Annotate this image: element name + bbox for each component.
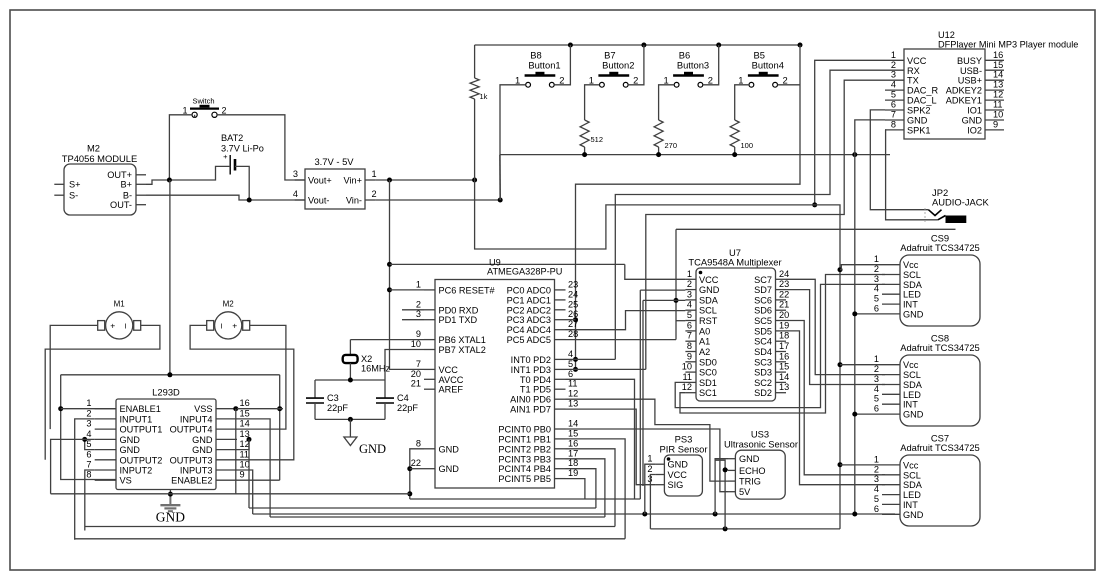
junction bus / R100 [732,152,737,157]
pin 11 T1 PD5 of U9 [555,388,566,390]
pin 22 SC6 of U7 [776,299,787,301]
svg-text:BUSY: BUSY [957,56,982,66]
svg-text:7: 7 [891,110,896,120]
wire bus D INPUT2 to PB2 [85,526,615,528]
IC U9 ATMEGA328P-PU [435,280,555,489]
svg-text:2: 2 [647,464,652,474]
svg-text:Adafruit TCS34725: Adafruit TCS34725 [900,342,980,353]
svg-text:GND: GND [739,454,760,464]
svg-text:PCINT3 PB3: PCINT3 PB3 [498,454,551,464]
svg-text:16: 16 [240,398,250,408]
svg-text:TRIG: TRIG [739,477,761,487]
wire Vin- net [375,199,500,201]
svg-text:19: 19 [568,468,578,478]
pin 11 SD1 of U7 [685,381,696,383]
svg-text:SIG: SIG [668,480,684,490]
svg-text:RX: RX [907,66,920,76]
svg-text:VS: VS [120,476,132,486]
svg-text:L293D: L293D [152,387,180,398]
pin 2 Vin- [365,199,375,201]
svg-text:1: 1 [663,75,668,86]
svg-text:OUT+: OUT+ [107,170,132,180]
svg-text:21: 21 [411,379,421,389]
pin 2 RX of U12 [885,69,904,71]
switch SW1 [182,97,226,118]
pin 4 LED of CS9 [882,293,900,295]
svg-text:16: 16 [568,438,578,448]
wire U7 SC5 to CS7 SCL [786,321,885,475]
battery BAT2 3.7V Li-Po [221,133,264,175]
wire B+ to battery plus [146,166,230,184]
wire 5V bottom bus [650,528,840,530]
junction rail end [798,43,803,48]
junction gnd bus / gnd symbol [168,492,173,497]
pin 3 OUTPUT1 of L293D [95,428,116,430]
junction bus / R512 [582,152,587,157]
pin 15 PCINT1 PB1 of U9 [555,438,566,440]
svg-text:14: 14 [779,372,789,382]
svg-text:VCC: VCC [439,365,459,375]
svg-text:4: 4 [891,80,896,90]
svg-text:SD7: SD7 [754,285,772,295]
junction bottom gnd / main gnd vertical [852,512,857,517]
svg-text:Vcc: Vcc [903,360,919,370]
wire ECHO jog to gnd column [715,460,725,470]
wire AIN1 PD7 to PS3 SIG [566,409,656,485]
svg-text:SD4: SD4 [754,347,772,357]
svg-text:3: 3 [874,374,879,384]
svg-text:GND: GND [907,116,928,126]
svg-text:OUTPUT1: OUTPUT1 [120,425,163,435]
wire VSS [237,408,283,410]
wire INT1 PD3 [566,368,646,370]
wire CS9 GND to gnd vertical [855,313,882,315]
svg-text:3: 3 [891,70,896,80]
svg-text:INPUT1: INPUT1 [120,414,153,424]
svg-text:GND: GND [962,116,983,126]
junction bus / R270 [656,152,661,157]
wire PCINT0 PB0 to US3 5V [566,429,729,492]
junction GND4 GND5 [82,437,87,442]
button B7 Button2 [589,50,639,88]
svg-text:6: 6 [687,320,692,330]
svg-text:1k: 1k [480,92,488,101]
svg-text:IO2: IO2 [967,125,982,135]
svg-text:SC3: SC3 [754,357,772,367]
wire rail right to VSS and ENABLE2 [279,375,281,480]
wire sda column [675,229,677,339]
svg-text:DAC_L: DAC_L [907,96,937,106]
wire U7 SCL to PC4 [566,311,686,330]
wire INPUT4 up [237,419,270,517]
svg-text:LED: LED [903,390,921,400]
svg-text:GND: GND [903,309,924,319]
svg-text:AVCC: AVCC [439,375,464,385]
svg-text:15: 15 [568,428,578,438]
svg-text:SCL: SCL [903,470,921,480]
wire CS8 Vcc to 5V [840,364,882,366]
svg-text:B+: B+ [121,180,133,190]
svg-text:PCINT0 PB0: PCINT0 PB0 [498,425,551,435]
pin 27 PC4 ADC4 of U9 [555,329,566,331]
sensor CS9 Adafruit TCS34725 [900,255,980,326]
svg-text:11: 11 [993,100,1003,110]
svg-text:8: 8 [891,119,896,129]
svg-text:8: 8 [687,341,692,351]
svg-text:270: 270 [665,141,678,150]
svg-text:2: 2 [874,364,879,374]
svg-text:ADKEY1: ADKEY1 [946,96,982,106]
svg-text:9: 9 [993,119,998,129]
pin 3 TX of U12 [885,79,904,81]
svg-text:14: 14 [993,70,1003,80]
svg-text:GND: GND [699,285,720,295]
wire B7 pin2 up to rail [628,45,644,85]
svg-text:4: 4 [86,429,91,439]
svg-text:PCINT4 PB4: PCINT4 PB4 [498,464,551,474]
svg-text:16: 16 [779,351,789,361]
svg-text:USB-: USB- [960,66,982,76]
junction VSS / gnd-bus drop [233,406,238,411]
svg-text:GND: GND [903,510,924,520]
svg-text:2: 2 [891,60,896,70]
wire B6 pin1 to R270 [659,85,675,120]
pin 1 Vcc of CS8 [882,364,900,366]
svg-text:1: 1 [647,454,652,464]
svg-text:DFPlayer Mini MP3 Player modul: DFPlayer Mini MP3 Player module [938,40,1078,50]
svg-text:VCC: VCC [699,275,719,285]
svg-text:11: 11 [240,449,250,459]
svg-text:PC6 RESET#: PC6 RESET# [439,285,496,295]
svg-text:AREF: AREF [439,385,464,395]
ground symbol (triangle) for crystal caps [344,437,357,446]
svg-text:PIR Sensor: PIR Sensor [660,444,708,455]
junction VCC drop / RESET wire [387,287,392,292]
wire CS9 Vcc to 5V [840,265,882,270]
svg-text:+: + [110,320,115,330]
wire L293D top rail [61,374,280,376]
svg-text:SCL: SCL [903,270,921,280]
svg-text:1: 1 [891,50,896,60]
junction Vin+ / 1k resistor [472,178,477,183]
svg-text:6: 6 [874,404,879,414]
pin 7 A1 of U7 [685,340,696,342]
svg-text:26: 26 [568,309,578,319]
svg-text:OUTPUT2: OUTPUT2 [120,455,163,465]
pin 25 PC2 ADC2 of U9 [555,309,566,311]
svg-text:SD2: SD2 [754,388,772,398]
svg-text:S+: S+ [69,180,81,190]
pin 16 VSS of L293D [216,408,237,410]
IC U7 TCA9548A Multiplexer [696,268,776,401]
svg-text:PC4 ADC4: PC4 ADC4 [507,325,551,335]
svg-text:19: 19 [779,320,789,330]
svg-text:C4: C4 [397,393,409,403]
wire left gnd bus [51,493,410,495]
pin 7 INPUT2 of L293D [95,469,116,471]
svg-text:INT0 PD2: INT0 PD2 [511,355,551,365]
svg-text:INPUT2: INPUT2 [120,466,153,476]
svg-text:23: 23 [779,279,789,289]
svg-text:4: 4 [568,349,573,359]
svg-text:X2: X2 [361,354,372,364]
svg-text:SD0: SD0 [699,357,717,367]
wire switch pin1 lead [194,115,196,118]
svg-text:25: 25 [568,299,578,309]
wire PS3 VCC down [650,475,655,529]
wire rail to 1k resistor [474,45,476,78]
svg-text:LED: LED [903,290,921,300]
svg-text:I: I [221,321,223,330]
motor M2 [207,299,250,339]
wire bus C PB3 to INPUT4 [270,516,605,518]
wire GND12 jog up [237,439,249,449]
pin 6 A0 of U7 [685,330,696,332]
svg-text:+: + [232,320,237,330]
pin 4 GND of L293D [95,438,116,440]
junction fan / PC3 [573,317,578,322]
wire to gnd triangle [349,419,351,437]
svg-text:Ultrasonic Sensor: Ultrasonic Sensor [724,439,798,450]
pin B- of M2 [136,194,146,196]
svg-text:SC6: SC6 [754,295,772,305]
svg-text:5: 5 [874,294,879,304]
wire CS8 GND to gnd vertical [855,413,882,415]
pin 20 AVCC of U9 [424,378,435,380]
svg-text:LED: LED [903,490,921,500]
svg-text:10: 10 [411,339,421,349]
svg-text:M1: M1 [114,299,126,308]
svg-text:17: 17 [779,341,789,351]
pin 4 INT0 PD2 of U9 [555,358,566,360]
pin B+ of M2 [136,183,146,185]
svg-text:2: 2 [782,75,787,86]
wire long dead-end line [676,228,956,230]
pin 5V of US3 [728,491,735,493]
svg-text:SD1: SD1 [699,378,717,388]
svg-text:SC5: SC5 [754,316,772,326]
svg-text:15: 15 [993,60,1003,70]
svg-text:24: 24 [779,269,789,279]
svg-text:4: 4 [874,384,879,394]
wire B5 pin2 to rail drop [778,84,801,86]
svg-text:6: 6 [874,504,879,514]
pin 8 SPK1 of U12 [885,129,904,131]
wire U12 RX to INT0 PD2 [615,70,885,359]
svg-text:SD5: SD5 [754,326,772,336]
svg-text:Button3: Button3 [677,60,709,71]
svg-text:Button2: Button2 [602,60,634,71]
pin 3 Vout+ [295,179,305,181]
motor M1 [98,299,141,339]
pin 2 GND of U7 [685,289,696,291]
svg-text:B-: B- [123,191,132,201]
wire Vin+ net [375,179,474,181]
wire R100 to gnd bus [734,147,736,155]
pin1 marker of U7 [699,271,703,275]
svg-text:Button1: Button1 [528,60,560,71]
svg-text:12: 12 [993,90,1003,100]
pin 3 SDA of CS8 [882,384,900,386]
wire U12 TX to INT1 PD3 [646,80,885,369]
svg-text:8: 8 [86,470,91,480]
svg-text:INT: INT [903,300,918,310]
svg-text:6: 6 [891,100,896,110]
svg-text:INT: INT [903,400,918,410]
pin 17 SD4 of U7 [776,351,787,353]
pin 4 DAC_R of U12 [885,89,904,91]
wire U7 GND drop [639,290,641,499]
wire B8 pin2 up to rail [554,45,570,85]
svg-text:16MHz: 16MHz [361,364,391,374]
junction Vin+ / VCC drop [387,178,392,183]
pin S+ of M2 [54,183,64,185]
svg-text:9: 9 [416,329,421,339]
junction fan / INT1 [573,367,578,372]
svg-text:9: 9 [687,351,692,361]
wire GND5 jog up [85,439,95,449]
pin 26 PC3 ADC3 of U9 [555,319,566,321]
svg-text:SC0: SC0 [699,368,717,378]
pin 10 PB7 XTAL2 of U9 [424,349,435,351]
wire U7 VCC feed [390,263,625,265]
svg-text:AIN1 PD7: AIN1 PD7 [510,405,551,415]
svg-text:GND: GND [192,435,213,445]
svg-text:PCINT5 PB5: PCINT5 PB5 [498,474,551,484]
pin 2 INPUT1 of L293D [95,418,116,420]
wire PD1 TXD stub [402,319,424,321]
svg-text:ADKEY2: ADKEY2 [946,86,982,96]
wire RESET to VCC net [390,289,425,291]
pin 2 SCL of CS9 [882,274,900,276]
wire 5V to U9 VCC pin7 [390,180,425,369]
IC U12 DFPlayer Mini MP3 Player module [904,49,985,139]
pin 13 ADKEY2 of U12 [985,89,1004,91]
wire PCINT3 PB3 down [566,459,605,517]
pin 2 VCC of PS3 [656,474,665,476]
junction sda column / U7 SDA [674,298,679,303]
wire U7 VCC up to 5V wire [625,264,686,279]
wire 1k to Vin+ junction [474,99,476,180]
pin 6 T0 PD4 of U9 [555,378,566,380]
pin 28 PC5 ADC5 of U9 [555,339,566,341]
svg-text:1: 1 [589,75,594,86]
svg-text:SC1: SC1 [699,388,717,398]
svg-text:GND: GND [439,444,460,454]
wire ENABLE2 to rail column [237,479,280,481]
connector JP2 AUDIO-JACK [925,187,990,224]
wire U7 SC1 to CS9 SCL [680,275,885,414]
pin GND of US3 [728,458,735,460]
wire M2 left to OUTPUT3 [190,325,294,459]
wire PB6 XTAL1 to crystal [350,339,424,341]
wire ground bus [500,154,890,156]
wire switch pin1 to B+ node [169,115,192,180]
svg-text:S-: S- [69,191,78,201]
svg-text:OUT-: OUT- [110,200,132,210]
svg-text:INPUT3: INPUT3 [180,466,213,476]
svg-text:Adafruit TCS34725: Adafruit TCS34725 [900,442,980,453]
pin 24 SC7 of U7 [776,278,787,280]
resistor R2 512 [580,120,589,147]
svg-text:27: 27 [568,319,578,329]
wire 5V net distribution [475,180,840,529]
svg-text:10: 10 [682,362,692,372]
wire GND4 to gnd bus [51,439,95,493]
svg-text:1: 1 [372,169,377,179]
junction rail / B6 pin2 [716,43,721,48]
pin 23 SD7 of U7 [776,289,787,291]
svg-text:4: 4 [293,189,298,199]
svg-text:18: 18 [779,331,789,341]
wire U12 GND down main gnd vertical [855,120,885,514]
pin1 marker of PS3 [667,457,671,461]
svg-text:ECHO: ECHO [739,466,766,476]
wire rail left to VS [61,375,116,480]
wire bottom gnd bus to CS7 [253,513,895,515]
svg-text:PCINT1 PB1: PCINT1 PB1 [498,434,551,444]
pin 8 GND of U9 [424,448,435,450]
pin 5 GND of L293D [95,449,116,451]
pin 10 SC0 of U7 [685,371,696,373]
junction crystal / cap rail [348,378,353,383]
svg-text:I: I [125,321,127,330]
svg-text:100: 100 [741,141,754,150]
junction rail / B7 pin2 [641,43,646,48]
svg-text:1: 1 [874,254,879,264]
svg-text:VSS: VSS [194,404,212,414]
svg-text:3.7V - 5V: 3.7V - 5V [314,156,354,167]
svg-text:1: 1 [86,398,91,408]
svg-text:17: 17 [568,448,578,458]
svg-text:2: 2 [708,75,713,86]
pin 2 PD0 RXD of U9 [424,309,435,311]
capacitor C3 22pF [306,380,348,419]
pin 16 PCINT2 PB2 of U9 [555,448,566,450]
svg-text:15: 15 [779,362,789,372]
pin 7 VCC of U9 [424,368,435,370]
sensor US3 Ultrasonic Sensor [735,450,785,499]
pin 14 OUTPUT4 of L293D [216,428,237,430]
pin 19 SD5 of U7 [776,330,787,332]
svg-text:A0: A0 [699,326,710,336]
svg-text:4: 4 [874,284,879,294]
svg-text:22: 22 [779,289,789,299]
svg-text:3: 3 [874,274,879,284]
junction VCC drop / U7 VCC wire [387,262,392,267]
wire battery net down to L293D rail [169,180,171,375]
svg-text:14: 14 [568,419,578,429]
svg-text:Vin-: Vin- [346,195,362,205]
svg-text:5: 5 [568,359,573,369]
capacitor C4 22pF [376,380,418,419]
svg-text:SDA: SDA [699,295,719,305]
svg-text:22pF: 22pF [397,403,418,413]
pin 1 PC6 RESET# of U9 [424,289,435,291]
pin 13 GND of L293D [216,438,237,440]
svg-text:7: 7 [416,359,421,369]
wire AIN0 PD6 to US3 TRIG [566,399,729,481]
junction B+ / switch1 / rail-down [167,178,172,183]
pin 3 SDA of CS7 [882,484,900,486]
svg-text:5: 5 [874,494,879,504]
pin 3 SDA of CS9 [882,283,900,285]
pin 1 ENABLE1 of L293D [95,408,116,410]
svg-text:SC2: SC2 [754,378,772,388]
svg-text:GND: GND [120,435,141,445]
wire M1 left to OUTPUT1 [50,325,97,429]
wire PCINT4 PB4 down [566,469,596,508]
